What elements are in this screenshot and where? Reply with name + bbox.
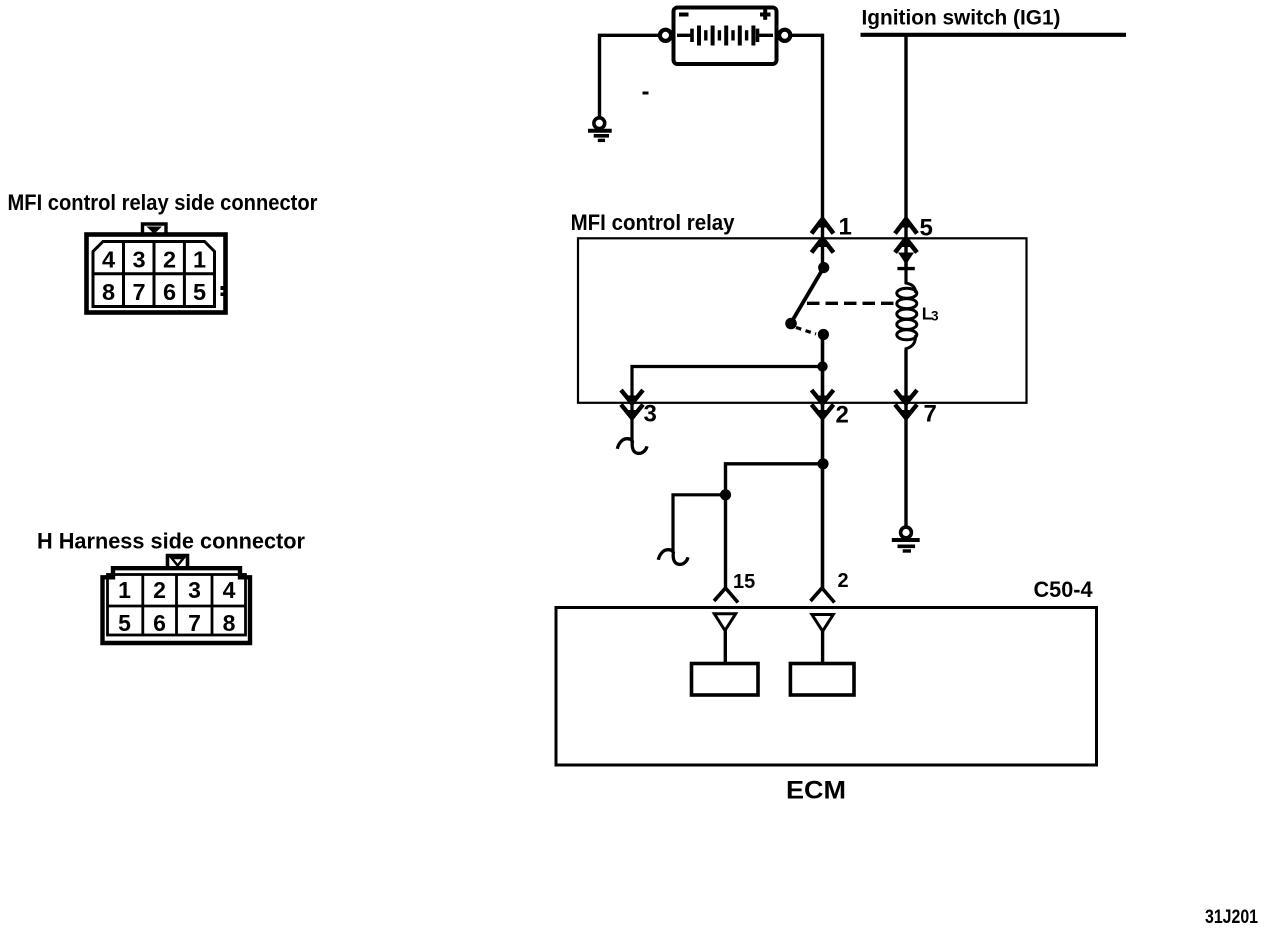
H pin numbers row 1 (118, 577, 236, 603)
svg-text:2: 2 (836, 401, 849, 428)
stem 1 (724, 631, 727, 665)
wire branch to ECM pin 15 (726, 464, 823, 589)
coil L3 (897, 271, 917, 404)
relay box (578, 238, 1027, 402)
svg-text:2: 2 (838, 570, 849, 592)
MFI connector shell (87, 235, 226, 313)
ignition switch feed line (861, 33, 1127, 37)
svg-text:6: 6 (163, 279, 176, 305)
curl (to other circuit) (658, 550, 673, 560)
ground G2 (pin 7) (892, 527, 920, 551)
junction dot (817, 361, 827, 371)
MFI connector pin field (93, 242, 215, 307)
wire IG1 down to relay pin 5 (904, 35, 907, 268)
switch common node dot (818, 262, 829, 273)
svg-text:ECM: ECM (786, 777, 846, 805)
svg-text:4: 4 (102, 247, 115, 273)
ECM cell 1 (692, 664, 759, 696)
svg-text:3: 3 (644, 401, 657, 428)
ECM pin 15 arrow (714, 588, 726, 601)
relay coil feed arrow (898, 253, 914, 265)
switch contact dot (818, 329, 829, 340)
svg-text:3: 3 (132, 247, 145, 273)
svg-text:7: 7 (132, 279, 145, 305)
svg-text:8: 8 (223, 610, 236, 636)
svg-text:2: 2 (153, 577, 166, 603)
svg-text:C50-4: C50-4 (1034, 577, 1094, 602)
ECM cell 2 (790, 664, 854, 696)
contact dashed segment (796, 328, 816, 335)
wire pin 7 to ground (904, 350, 907, 527)
stem 2 (821, 631, 824, 664)
MFI connector tab (143, 224, 167, 234)
svg-text:4: 4 (223, 577, 236, 603)
svg-text:7: 7 (188, 610, 201, 636)
svg-text:15: 15 (733, 571, 755, 593)
svg-text:31J201: 31J201 (1205, 907, 1258, 928)
MFI pin numbers row 2 (102, 279, 206, 305)
svg-text:5: 5 (920, 215, 933, 242)
junction dot on pin15 branch (720, 489, 731, 500)
ECM input triangle 2 (812, 615, 833, 632)
scan artifact MFI shell right edge (221, 286, 226, 290)
svg-text:7: 7 (924, 401, 937, 428)
scan speck (643, 92, 649, 95)
svg-text:3: 3 (188, 577, 201, 603)
MFI pin numbers row 1 (102, 247, 206, 273)
ECM input triangle 1 (714, 614, 735, 631)
H connector pin field (108, 575, 246, 636)
pin 7 arrow (895, 390, 917, 418)
wire battery positive down to relay pin 1 (790, 35, 822, 267)
ground G1 (battery) (588, 118, 612, 141)
svg-text:H Harness side connector: H Harness side connector (37, 529, 305, 554)
svg-text:Ignition switch (IG1): Ignition switch (IG1) (862, 6, 1061, 29)
pin 3 arrow (621, 390, 643, 418)
H connector tab (168, 556, 188, 567)
wire battery negative to ground (600, 35, 660, 117)
H pin numbers row 2 (118, 610, 236, 636)
svg-text:5: 5 (118, 610, 131, 636)
ECM pin 2 arrow (811, 588, 823, 601)
switch arm (792, 270, 823, 323)
svg-text:8: 8 (102, 279, 115, 305)
svg-text:1: 1 (193, 247, 206, 273)
mechanical link dashed (807, 302, 895, 305)
switch pivot dot (785, 318, 797, 330)
junction dot pin2/pin15 (817, 458, 828, 469)
ECM box (556, 608, 1097, 766)
svg-text:3: 3 (931, 309, 939, 324)
wire branch to other circuit (673, 495, 726, 553)
svg-text:MFI control relay side connect: MFI control relay side connector (8, 190, 318, 215)
svg-text:2: 2 (163, 247, 176, 273)
pin 1 arrow (812, 219, 834, 253)
svg-text:MFI control relay: MFI control relay (571, 210, 736, 235)
pin 2 arrow (812, 390, 834, 418)
svg-text:1: 1 (118, 577, 131, 603)
svg-text:5: 5 (193, 279, 206, 305)
battery B1 (660, 8, 790, 65)
curl (to other circuit) below pin 3 (617, 439, 632, 449)
pin 5 arrow (895, 219, 917, 253)
svg-text:6: 6 (153, 610, 166, 636)
wire junction to pin 3 (632, 367, 823, 443)
svg-text:1: 1 (839, 214, 852, 241)
H connector shell (103, 568, 251, 643)
wire contact down to pin 2 (821, 335, 825, 589)
